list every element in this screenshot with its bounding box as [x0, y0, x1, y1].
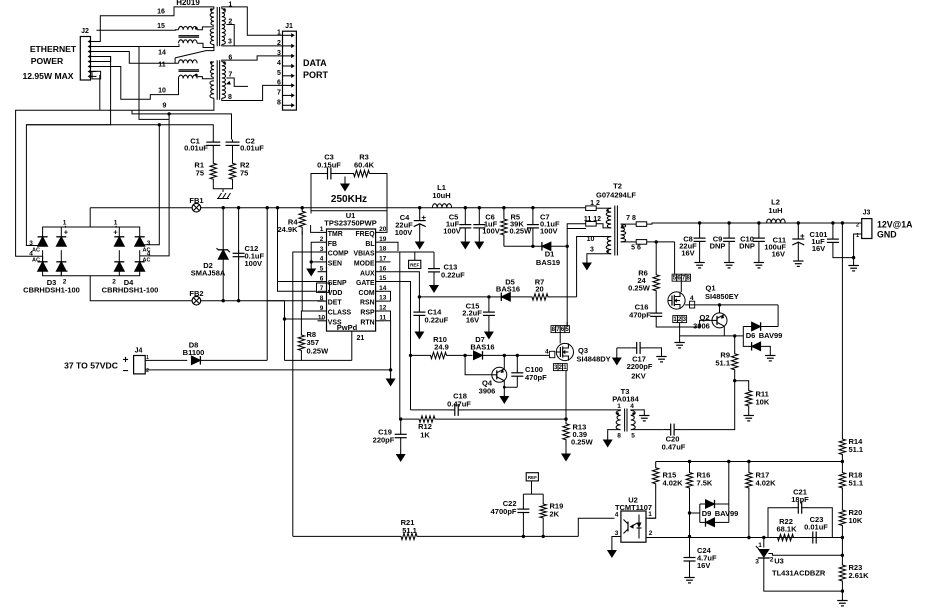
wire H2019 pin6 to J1 pin3 — [222, 56, 283, 62]
wire R21 to U2 — [422, 535, 578, 537]
diode D3d — [56, 262, 66, 271]
wire C1 to R1 — [212, 148, 214, 161]
ground arrow T3 pin8 — [607, 436, 609, 440]
voltage reference REF box — [409, 260, 421, 268]
wire gate to C18 line — [411, 409, 449, 411]
transformer T3 secondary — [631, 411, 635, 430]
svg-text:4: 4 — [630, 403, 634, 410]
capacitor C20 — [664, 429, 671, 431]
ground arrow C19 — [400, 449, 402, 454]
wire T3 pin5 to C20 — [631, 429, 664, 431]
ground arrow FB/SEN — [310, 265, 312, 269]
wire C7 top — [532, 208, 534, 222]
wire C5 down — [464, 231, 466, 237]
transistor Q4 — [492, 367, 507, 382]
capacitor C19 — [400, 432, 402, 435]
svg-text:60.4K: 60.4K — [354, 161, 375, 170]
transformer T2 primary winding — [606, 208, 611, 228]
wire Q1 gate line — [685, 304, 778, 306]
diode D3b — [56, 237, 66, 246]
transistor Q2 — [712, 313, 727, 328]
svg-text:3906: 3906 — [479, 387, 496, 396]
svg-text:2: 2 — [856, 223, 859, 229]
wire H2019 pin1 to J1 pin1 — [222, 7, 283, 35]
wire D9b right — [715, 521, 729, 523]
dot T3 primary polarity — [616, 412, 619, 415]
diode D4d — [135, 262, 145, 271]
svg-text:1: 1 — [617, 403, 621, 410]
wire D5 to R7 — [510, 296, 528, 298]
resistor R8 — [298, 333, 304, 353]
svg-text:G074294LF: G074294LF — [596, 191, 636, 200]
pad T2 pins 1 2 — [586, 206, 597, 211]
junction lower AC/D4 — [167, 112, 170, 115]
svg-text:51.1: 51.1 — [402, 526, 417, 535]
wire Q3 source down — [565, 371, 567, 420]
wire Q4 base tap — [465, 355, 492, 374]
wire switch vertical into pads — [566, 322, 568, 326]
svg-text:5: 5 — [320, 266, 324, 273]
wire C22 top — [522, 494, 524, 506]
wire rail to D8 line vertical — [266, 208, 268, 361]
wire J2 pin3 to H2019 pin11 — [97, 52, 179, 64]
wire D6b right — [761, 346, 771, 352]
svg-text:−: − — [123, 366, 129, 377]
svg-text:4: 4 — [277, 60, 281, 67]
svg-text:16V: 16V — [772, 250, 785, 259]
earth ground J3 — [853, 263, 855, 266]
junction rail 277 — [276, 206, 279, 209]
wire R17 top — [748, 462, 750, 471]
wire R6 to C16 — [655, 294, 657, 310]
wire R22 to C23 — [797, 537, 806, 539]
junction C6 rail — [478, 206, 481, 209]
junction U3 ref — [762, 536, 765, 539]
svg-text:BAS16: BAS16 — [470, 343, 494, 352]
diode D5 — [501, 293, 510, 302]
wire VBIAS to REF — [414, 252, 416, 260]
connector J3 — [862, 219, 872, 239]
svg-text:14: 14 — [158, 50, 166, 57]
svg-text:11 12: 11 12 — [584, 216, 601, 223]
wire AUX bias line — [419, 296, 489, 298]
wire D9b leads — [700, 521, 706, 523]
wire R11 bottom — [748, 408, 750, 413]
svg-text:11: 11 — [158, 62, 166, 69]
svg-text:DNP: DNP — [739, 242, 755, 251]
wire C101 top — [832, 223, 834, 237]
junction C101 rail — [831, 221, 834, 224]
dot H2019 ch2 secondary — [223, 61, 226, 64]
wire C15 top — [488, 297, 490, 309]
junction R17 rail — [747, 460, 750, 463]
resistor R13 — [563, 419, 569, 444]
svg-text:SI4848DY: SI4848DY — [577, 355, 611, 364]
junction RTN J4 line — [389, 368, 392, 371]
wire R11 top — [735, 381, 749, 389]
connector J2 pin arrows — [91, 41, 97, 43]
ground arrow RTN — [390, 374, 392, 379]
svg-text:1: 1 — [648, 511, 652, 518]
svg-text:BL: BL — [365, 241, 374, 248]
wire C19 top — [399, 419, 402, 431]
junction C10 rail — [757, 221, 760, 224]
dot T2 aux polarity — [606, 250, 609, 253]
svg-text:1: 1 — [320, 226, 324, 233]
junction choke ch1 right dot — [195, 27, 198, 30]
junction VSS corner — [283, 317, 286, 320]
svg-text:SI4850EY: SI4850EY — [705, 292, 739, 301]
svg-text:16V: 16V — [466, 316, 479, 325]
diode D7 — [474, 351, 483, 360]
earth ground C17 — [661, 354, 663, 357]
tick D4 pin1 — [115, 226, 117, 228]
resistor R4 — [299, 208, 305, 231]
junction C11 rail — [797, 221, 800, 224]
connector J4 — [134, 356, 146, 374]
wire C7 down — [532, 231, 534, 246]
svg-text:75: 75 — [240, 169, 248, 178]
wire R12 left — [401, 418, 414, 420]
svg-text:BAS19: BAS19 — [536, 258, 560, 267]
wire T3 pin1 lead — [618, 409, 621, 412]
svg-text:0.01uF: 0.01uF — [240, 144, 264, 153]
ferrite bead FB1 — [192, 203, 201, 212]
pads Q3 drain 8 7 6 5 — [551, 326, 556, 333]
capacitor C14 — [418, 309, 420, 312]
svg-text:2: 2 — [63, 279, 67, 286]
wire COMP line R21 — [293, 535, 396, 537]
wire feedback top rail — [656, 461, 843, 463]
bridge D4 legs mid — [118, 250, 120, 262]
svg-text:8: 8 — [617, 433, 621, 440]
svg-text:BAS16: BAS16 — [496, 285, 520, 294]
resistor R16 — [686, 471, 692, 491]
ground arrow U2 pin3 — [611, 546, 613, 550]
junction clamp C7 — [531, 245, 534, 248]
junction C15 — [487, 295, 490, 298]
resistor R22 — [774, 534, 797, 540]
svg-text:REF: REF — [410, 262, 419, 267]
diode D8 — [191, 356, 200, 365]
svg-text:D6: D6 — [746, 331, 756, 340]
capacitor C101 — [832, 237, 834, 240]
wire sec to Q1 drain — [674, 242, 676, 274]
wire D8 to rail riser — [200, 359, 267, 361]
svg-text:12.95W MAX: 12.95W MAX — [22, 71, 73, 81]
junction Q4 C100 — [503, 386, 506, 389]
wire Q1 gate to D6 — [777, 305, 779, 327]
wire REF to bracket — [531, 481, 533, 494]
ground arrow T2 pin3 — [586, 259, 588, 263]
svg-text:1K: 1K — [420, 431, 430, 440]
wire rail drop to bridge top — [89, 208, 91, 227]
svg-text:2: 2 — [770, 557, 774, 564]
transformer T ch2 primary winding — [210, 62, 214, 78]
wire C5 top — [464, 208, 466, 222]
ground arrow C14 — [418, 328, 420, 332]
capacitor C10 — [758, 235, 760, 238]
wire switch to T2 primary low — [567, 228, 586, 230]
svg-text:ETHERNET: ETHERNET — [30, 44, 77, 54]
wire C100 vertical — [516, 355, 518, 370]
svg-text:H2019: H2019 — [176, 0, 200, 7]
osc loop right side — [311, 174, 387, 211]
wire R19 bottom — [542, 520, 544, 536]
wire AUX pin16 route — [384, 272, 419, 297]
capacitor C24 — [689, 555, 691, 558]
svg-text:100V: 100V — [482, 227, 500, 236]
wire C9 down — [728, 245, 730, 260]
svg-text:FREQ: FREQ — [355, 231, 375, 238]
svg-text:1 2: 1 2 — [590, 200, 600, 207]
svg-text:0.15uF: 0.15uF — [317, 161, 341, 170]
wire R18 to R20 — [841, 490, 843, 508]
wire CLASS pin9 to R8 — [301, 311, 317, 333]
svg-text:2KV: 2KV — [631, 372, 646, 381]
wire R16 top — [689, 462, 691, 471]
svg-text:GND: GND — [877, 230, 897, 240]
choke winding ch1 lower — [179, 40, 198, 43]
capacitor C15 — [488, 309, 490, 312]
wire R9 top — [734, 336, 736, 351]
diode D4a — [114, 237, 124, 246]
wire TMR pin1 jog — [311, 225, 318, 232]
junction pin4 gnd — [310, 260, 313, 263]
junction R6 top — [655, 240, 658, 243]
resistor R17 — [746, 471, 752, 491]
svg-text:2: 2 — [146, 368, 149, 374]
svg-text:SMAJ58A: SMAJ58A — [191, 269, 226, 278]
junction C100 top — [516, 354, 519, 357]
wire R6 top lead — [655, 242, 657, 272]
junction R17 line — [747, 536, 750, 539]
svg-text:2: 2 — [277, 40, 281, 47]
inductor L2 — [767, 219, 786, 223]
arrow mark near pin7 wire — [226, 81, 231, 85]
svg-text:100V: 100V — [443, 227, 461, 236]
junction C7 rail — [531, 206, 534, 209]
diode D6a — [752, 322, 761, 331]
wire U2 pin1 lead — [646, 517, 656, 519]
connector J1 pin arrows and numbers — [283, 34, 292, 36]
pad T2 pins 11 12 — [586, 222, 597, 227]
svg-text:3: 3 — [228, 38, 232, 45]
wire choke ch1 lower right to winding — [197, 43, 214, 47]
wire C10 down — [758, 245, 760, 260]
wire gate drive line — [411, 354, 428, 356]
wire Q2 emitter — [719, 305, 721, 313]
svg-text:5 6: 5 6 — [631, 245, 641, 252]
wire 12V feedback vertical — [841, 223, 843, 437]
junction switch D1 — [566, 245, 569, 248]
svg-text:DET: DET — [328, 300, 343, 307]
wire J2 pin8 down — [99, 75, 101, 110]
svg-text:TCMT1107: TCMT1107 — [615, 503, 652, 512]
junction AUX line C14 — [418, 295, 421, 298]
wire U3 anode — [764, 558, 843, 591]
svg-text:3906: 3906 — [693, 321, 710, 330]
svg-text:3: 3 — [147, 240, 151, 247]
svg-text:75: 75 — [196, 169, 204, 178]
svg-text:J3: J3 — [863, 210, 871, 217]
wire T2 pin3 — [587, 254, 611, 259]
svg-text:8: 8 — [277, 99, 281, 106]
wire C20 to R9 node — [681, 381, 735, 430]
wire lower AC net to H2019 pin9 — [100, 98, 214, 110]
svg-text:2200pF: 2200pF — [627, 362, 653, 371]
svg-text:5: 5 — [631, 433, 635, 440]
capacitor C11 polarized — [797, 223, 799, 239]
optocoupler U2 internals — [627, 522, 629, 532]
resistor R23 — [839, 563, 845, 584]
wire C2 to R2 — [232, 148, 234, 161]
MOSFET Q1 — [668, 292, 685, 309]
resistor R12 — [414, 416, 440, 422]
svg-text:0.25W: 0.25W — [307, 347, 330, 356]
wire T3 pin4 to gnd — [631, 410, 645, 413]
svg-text:D9: D9 — [702, 509, 712, 518]
svg-text:4: 4 — [147, 251, 151, 258]
wire D1 to switch node — [551, 245, 567, 247]
pads Q3 source 3 2 1 — [553, 364, 558, 371]
wire D7 to Q3 gate — [483, 354, 550, 356]
wire VSS bottom line — [285, 359, 352, 361]
wire C13 down — [433, 275, 435, 281]
pads Q1 drain 5 6 7 8 — [672, 274, 677, 281]
transformer T ch2 secondary winding — [222, 62, 226, 98]
wire J2 pins4-5 bracket — [97, 57, 111, 62]
earth ground D6 — [769, 353, 771, 356]
junction anode line — [841, 589, 844, 592]
svg-text:7: 7 — [277, 89, 281, 96]
pin box J2 pins 7-8 — [92, 71, 101, 79]
svg-text:0.22uF: 0.22uF — [441, 271, 465, 280]
wire U2 pin3 gnd — [612, 537, 621, 547]
earth ground C24 — [689, 575, 691, 578]
earth ground R11 — [748, 413, 750, 416]
svg-text:20: 20 — [535, 285, 543, 294]
junction R13 top — [564, 417, 567, 420]
svg-text:RSN: RSN — [360, 300, 375, 307]
wire diagonal crossover — [175, 45, 214, 58]
resistor R3 — [348, 170, 375, 176]
ground arrow Q4 — [503, 392, 505, 396]
svg-text:FB2: FB2 — [189, 289, 203, 298]
svg-text:470pF: 470pF — [629, 311, 651, 320]
diode D9b — [706, 518, 715, 527]
ground arrow C4 — [419, 237, 421, 242]
svg-text:0.22uF: 0.22uF — [425, 316, 449, 325]
svg-text:24.9K: 24.9K — [277, 225, 298, 234]
dot T2 secondary polarity — [621, 225, 624, 228]
choke winding ch1 upper — [179, 26, 198, 29]
wire RSP vertical to C19 — [399, 252, 401, 419]
svg-text:2.61K: 2.61K — [849, 571, 870, 580]
diode D3a — [38, 237, 48, 246]
wire D2 vertical — [222, 208, 224, 301]
wire R13 bottom — [565, 445, 567, 450]
bridge D4 right leg top — [139, 237, 141, 246]
svg-text:0.01uF: 0.01uF — [184, 144, 208, 153]
wire U3 ref — [763, 538, 765, 548]
wire branch to D4 upper AC — [140, 125, 160, 245]
junction C22 line — [522, 535, 525, 538]
wire R4 bottom jog — [301, 231, 303, 235]
svg-text:RSP: RSP — [360, 310, 375, 317]
junction D2 rail — [222, 206, 225, 209]
wire R23 bottom — [841, 584, 843, 598]
wire FREQ pin20 to osc — [384, 211, 387, 233]
wire Q4 emitter up — [503, 355, 505, 368]
wire C21 bracket left — [768, 508, 792, 538]
wire pin21 PwPd — [351, 331, 353, 360]
dot H2019 ch1 primary — [210, 8, 213, 11]
svg-text:37 TO 57VDC: 37 TO 57VDC — [64, 361, 118, 371]
junction upper AC/D4 feed — [158, 123, 161, 126]
capacitor C4 polarized — [419, 208, 421, 221]
svg-text:4: 4 — [615, 512, 619, 519]
svg-text:GATE: GATE — [356, 280, 375, 287]
svg-text:DNP: DNP — [710, 242, 726, 251]
svg-text:SEN: SEN — [328, 261, 342, 268]
svg-text:1uH: 1uH — [768, 206, 782, 215]
svg-text:AC: AC — [32, 258, 40, 264]
wire U3 cathode — [769, 554, 843, 556]
wire T2 sec top to pad — [621, 223, 637, 225]
svg-text:16: 16 — [157, 9, 165, 16]
capacitor C8 — [699, 235, 701, 238]
svg-text:16V: 16V — [681, 249, 694, 258]
earth ground C11 — [797, 258, 799, 261]
svg-text:100V: 100V — [395, 228, 413, 237]
pad T2 pins 5 6 — [636, 240, 647, 245]
wire C21 bracket right — [809, 508, 833, 538]
svg-text:21: 21 — [357, 335, 365, 342]
ferrite bead FB2 — [192, 296, 201, 305]
wire R7 to pin10 vertical — [552, 296, 577, 298]
svg-text:3: 3 — [615, 530, 619, 537]
wire R10 to D7 — [450, 354, 473, 356]
wire D6b left — [743, 327, 751, 347]
dot H2019 ch1 secondary — [223, 8, 226, 11]
wire lower AC branch — [132, 110, 232, 139]
capacitor C5 — [464, 222, 466, 225]
wire C6 top — [478, 208, 480, 222]
wire R17 bottom — [748, 490, 750, 538]
svg-text:10uH: 10uH — [432, 191, 450, 200]
junction C5 rail — [464, 206, 467, 209]
svg-text:+: + — [123, 355, 129, 366]
wire D9a leads — [700, 503, 706, 505]
svg-text:TL431ACDBZR: TL431ACDBZR — [772, 569, 826, 578]
wire FB2 rail to U1 — [201, 300, 285, 302]
svg-text:2: 2 — [112, 279, 116, 286]
resistor R15 — [653, 462, 659, 491]
TVS diode D2 — [218, 250, 228, 259]
svg-text:8: 8 — [320, 295, 324, 302]
wire T2 pad1112 left — [567, 224, 586, 229]
wire T3 pin8 — [608, 430, 621, 436]
svg-text:9: 9 — [163, 103, 167, 110]
svg-text:10K: 10K — [849, 516, 863, 525]
svg-text:−: − — [114, 267, 119, 276]
svg-text:J2: J2 — [81, 28, 89, 35]
capacitor C22 — [522, 506, 524, 509]
wire join to chassis ground — [222, 189, 224, 192]
svg-text:7 8: 7 8 — [626, 215, 636, 222]
pads Q1 source 1 2 3 — [673, 316, 678, 323]
